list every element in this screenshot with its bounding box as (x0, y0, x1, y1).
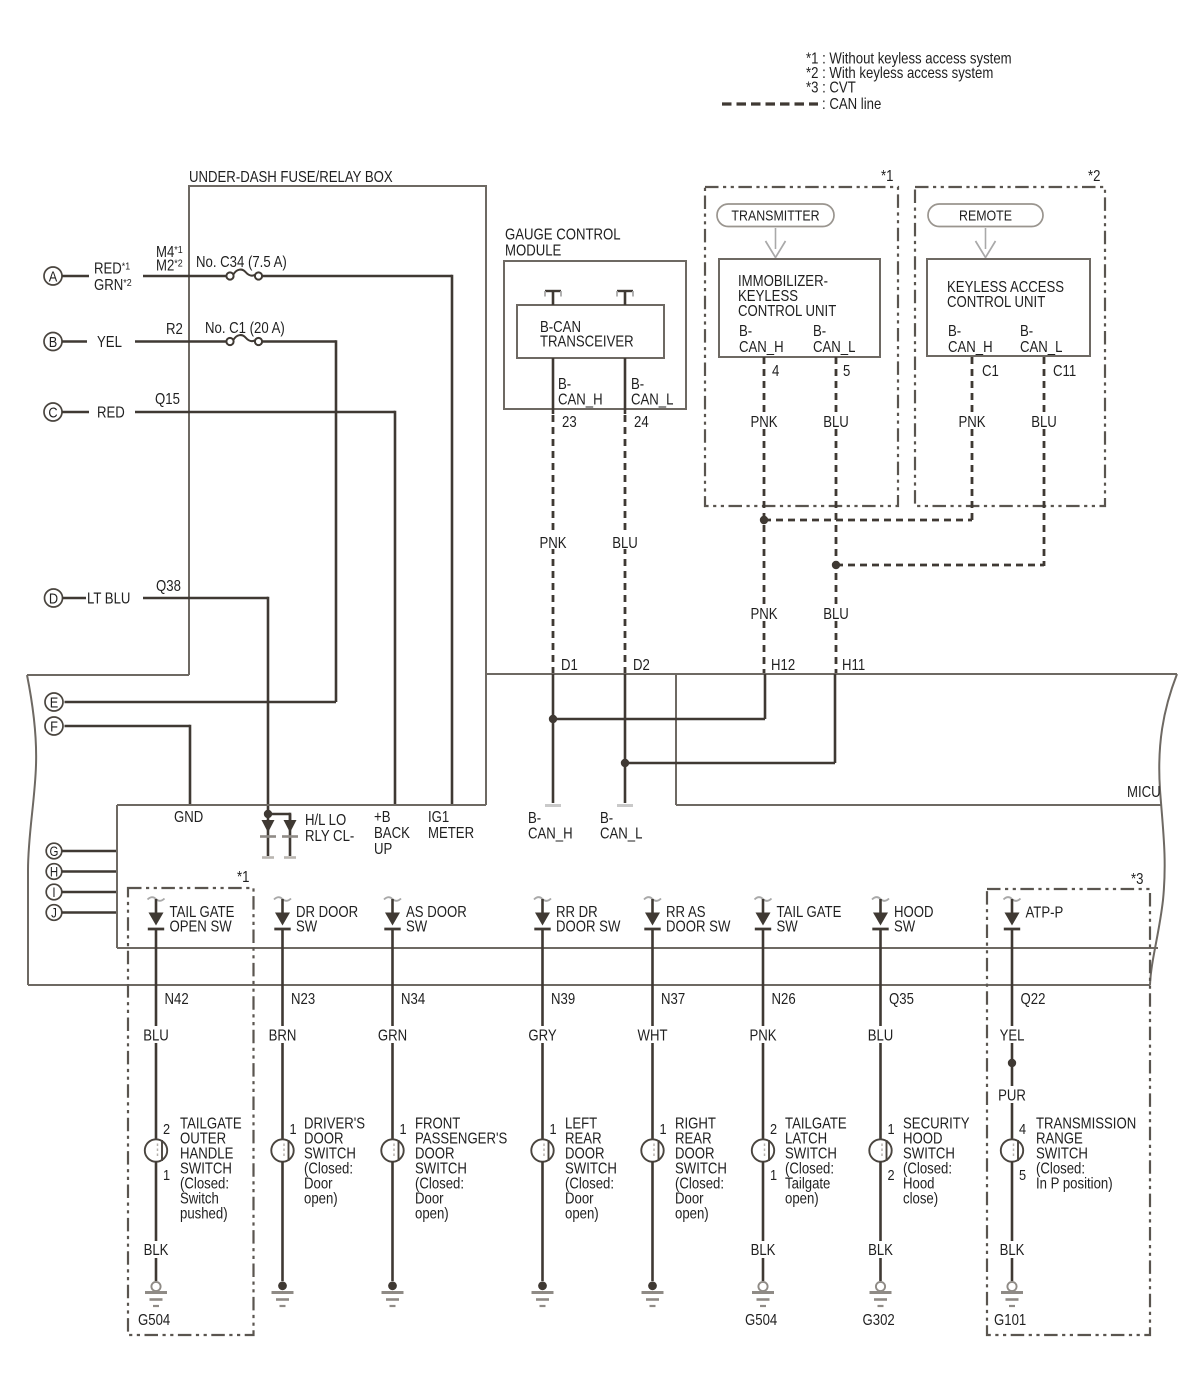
svg-text:SW: SW (406, 919, 428, 936)
wire A stub (62, 275, 89, 278)
svg-text:BLU: BLU (612, 535, 638, 552)
wire color label GRY (525, 1026, 561, 1045)
MICU pin H11 label (842, 657, 865, 674)
immobilizer-keyless control unit box (719, 259, 880, 357)
svg-text:DOOR SW: DOOR SW (556, 919, 621, 936)
wire B-CAN_L inside gauge module (624, 358, 627, 414)
switch symbol DR DOOR SW (274, 897, 291, 929)
wire below DRIVER'S DOOR SWITCH (281, 1162, 284, 1281)
wire below TAILGATE LATCH SWITCH (762, 1162, 765, 1281)
svg-text:REMOTE: REMOTE (959, 208, 1012, 224)
CAN wire immobilizer pin4 (PNK) dashed down to H12 (747, 357, 781, 673)
wire color label BLK at x=880.5 (864, 1241, 898, 1259)
svg-text:YEL: YEL (97, 334, 122, 351)
wire from switch Q22 down to lower switch (1011, 929, 1014, 1140)
svg-text:G302: G302 (863, 1312, 895, 1329)
svg-text:F: F (50, 717, 58, 734)
svg-text:1: 1 (290, 1120, 297, 1137)
svg-text:H/L LO: H/L LO (305, 812, 346, 829)
svg-text:GRN: GRN (378, 1028, 407, 1045)
wire below SECURITY HOOD SWITCH (879, 1162, 882, 1281)
switch symbol RR AS DOOR SW (644, 897, 661, 929)
connector terminal D (45, 589, 63, 607)
pin number 1 of FRONT PASSENGER'S DOOR SWITCH (400, 1120, 407, 1137)
svg-text:*1: *1 (237, 869, 249, 886)
switch name label TAIL GATE SW (777, 904, 842, 936)
ground chassis at x=652.5 (642, 1281, 664, 1306)
svg-text:G: G (50, 844, 59, 859)
switch name label TAIL GATE OPEN SW (170, 904, 235, 936)
wire B to fuse (135, 340, 227, 343)
remote arrow (976, 228, 996, 258)
svg-text:2: 2 (163, 1120, 170, 1137)
svg-text:BLK: BLK (144, 1242, 169, 1259)
svg-text:N39: N39 (551, 991, 575, 1008)
svg-text:RED: RED (97, 405, 125, 422)
wire color label GRN (375, 1026, 411, 1045)
svg-text:*1: *1 (881, 168, 893, 185)
svg-text:BLU: BLU (868, 1028, 894, 1045)
immobilizer-keyless control unit label (738, 273, 836, 320)
svg-text:G101: G101 (994, 1312, 1026, 1329)
svg-text:GND: GND (174, 809, 203, 826)
keyless access control unit label (947, 279, 1064, 311)
ground G101 at x=1012 (1001, 1282, 1023, 1306)
immobilizer pin number 4 (772, 363, 779, 380)
wire below LEFT REAR DOOR SWITCH (541, 1162, 544, 1281)
wire from switch N26 down to lower switch (762, 929, 765, 1140)
wire from switch N39 down to lower switch (541, 929, 544, 1140)
pin number 1 of TAILGATE OUTER HANDLE SWITCH (163, 1166, 170, 1183)
wire D stub (63, 597, 87, 600)
REMOTE pill (928, 204, 1043, 227)
switch symbol TAIL GATE SW (755, 897, 772, 929)
svg-text:BLU: BLU (823, 606, 849, 623)
svg-text:CAN_H: CAN_H (948, 339, 993, 356)
MICU torn left edge (27, 675, 36, 985)
MICU pin name GND (174, 809, 203, 826)
ground label G504 (745, 1312, 777, 1329)
svg-text:B-: B- (739, 323, 752, 340)
svg-text:+B: +B (374, 809, 390, 826)
wire from switch Q35 down to lower switch (879, 929, 882, 1140)
ground label G101 (994, 1312, 1026, 1329)
wire color label BLK at x=156 (139, 1241, 173, 1259)
svg-text:A: A (49, 267, 58, 284)
MICU inner bottom edge (117, 947, 1158, 949)
wire H12 branch down (764, 674, 767, 719)
junction dot on wire D at diode pair (264, 810, 272, 818)
connector terminal F (45, 717, 63, 735)
svg-text:H: H (50, 865, 58, 880)
svg-text:BRN: BRN (269, 1028, 297, 1045)
gauge control module box U-GCM (504, 261, 686, 409)
connector terminal B (44, 333, 62, 351)
switch DRIVER'S DOOR SWITCH (271, 1139, 293, 1161)
svg-text:4: 4 (1019, 1120, 1026, 1137)
svg-text:5: 5 (1019, 1166, 1026, 1183)
MICU pin D1 label (561, 657, 578, 674)
dash-dot option box *1 (without keyless) (705, 187, 898, 506)
svg-text:BACK: BACK (374, 825, 410, 842)
svg-text:Q35: Q35 (889, 991, 914, 1008)
MICU bottom edge (28, 984, 1150, 986)
wire I horizontal (62, 891, 117, 894)
wire C stub (62, 411, 89, 414)
wire H11 branch down (834, 674, 837, 763)
svg-text:D2: D2 (633, 657, 650, 674)
svg-text:1: 1 (400, 1120, 407, 1137)
svg-text:close): close) (903, 1191, 938, 1208)
switch name label RR DR DOOR SW (556, 904, 621, 936)
svg-text:GAUGE CONTROL: GAUGE CONTROL (505, 227, 621, 244)
keyless pin label B-CAN_L (1020, 323, 1062, 356)
B-CAN transceiver label (540, 319, 634, 351)
MICU pin name IG1 METER (428, 809, 474, 842)
fuse No. C34 (7.5 A) value label (196, 254, 287, 271)
connector terminal A (44, 267, 62, 285)
svg-text:open): open) (415, 1206, 449, 1223)
switch TAILGATE OUTER HANDLE SWITCH (145, 1139, 167, 1161)
svg-text:N42: N42 (165, 991, 189, 1008)
MICU connector label N34 (401, 991, 425, 1008)
svg-text:: CAN line: : CAN line (822, 96, 881, 113)
switch symbol RR DR DOOR SW (534, 897, 551, 929)
wire from switch N37 down to lower switch (651, 929, 654, 1140)
immobilizer pin number 5 (843, 363, 850, 380)
CAN wire keyless pin C11 (BLU) dashed (1027, 357, 1061, 566)
MICU pin name B-CAN_H (528, 810, 573, 843)
diode pair link wire (268, 813, 290, 820)
legend note *2 (806, 65, 993, 82)
svg-text:1: 1 (163, 1166, 170, 1183)
CAN bus link PNK horizontal dashed (764, 519, 972, 522)
legend note *3 (806, 80, 856, 97)
svg-text:PNK: PNK (750, 414, 777, 431)
svg-text:open): open) (675, 1206, 709, 1223)
svg-text:CONTROL UNIT: CONTROL UNIT (947, 294, 1045, 311)
svg-text:YEL: YEL (1000, 1028, 1025, 1045)
option box *3 label (1131, 871, 1143, 888)
CAN wire immobilizer pin5 (BLU) dashed down to H11 (819, 357, 853, 673)
svg-text:*3 : CVT: *3 : CVT (806, 80, 856, 97)
wire below TAILGATE OUTER HANDLE SWITCH (155, 1162, 158, 1281)
ground chassis at x=392.5 (382, 1281, 404, 1306)
switch symbol HOOD SW (872, 897, 889, 929)
MICU pin D2 label (633, 657, 650, 674)
fuse No. C34 symbol (226, 270, 262, 280)
gauge pin label B-CAN_H (558, 376, 603, 409)
svg-text:PNK: PNK (750, 606, 777, 623)
splice dot on ATP-P wire (1008, 1059, 1016, 1067)
wire B-CAN_H inside gauge module (552, 358, 555, 414)
name label RIGHT REAR DOOR SWITCH (675, 1116, 727, 1223)
wire F horizontal (65, 725, 191, 728)
wire color label BLU (138, 1026, 174, 1045)
name label TAILGATE LATCH SWITCH (785, 1116, 847, 1208)
wire B from fuse to corner (262, 340, 336, 343)
switch symbol AS DOOR SW (384, 897, 401, 929)
MICU connector label N26 (772, 991, 796, 1008)
wire F down to GND pin (189, 725, 192, 805)
MICU inner step vertical (675, 674, 677, 805)
svg-text:PNK: PNK (958, 414, 985, 431)
connector label R2 (166, 321, 183, 338)
option box *2 label (1088, 168, 1100, 185)
svg-text:RLY CL-: RLY CL- (305, 828, 354, 845)
wire D down to H/L LO RLY CL- diodes (267, 597, 270, 815)
svg-text:23: 23 (562, 414, 577, 431)
dash-dot option box *2 (with keyless) (915, 187, 1105, 506)
diode H/L LO RLY CL- at x=290 (282, 814, 298, 858)
wire B-CAN_H inside MICU from D1 (552, 674, 555, 803)
immobilizer pin label B-CAN_L (813, 323, 855, 356)
svg-text:Q22: Q22 (1021, 991, 1046, 1008)
wire J horizontal (62, 911, 117, 914)
pin number 1 of RIGHT REAR DOOR SWITCH (660, 1120, 667, 1137)
CAN bus link BLU horizontal dashed (836, 564, 1044, 567)
keyless access control unit box (927, 259, 1090, 356)
ground G302 at x=880.5 (870, 1282, 892, 1306)
svg-text:C: C (48, 403, 57, 420)
svg-text:CAN_H: CAN_H (739, 339, 784, 356)
name label LEFT REAR DOOR SWITCH (565, 1116, 617, 1223)
diode H/L LO RLY CL- at x=268 (260, 814, 276, 858)
transceiver antenna pin at x=625 (617, 291, 633, 305)
name label FRONT PASSENGER'S DOOR SWITCH (415, 1116, 507, 1223)
connector terminal C (44, 403, 62, 421)
svg-text:C11: C11 (1053, 363, 1076, 380)
svg-text:N26: N26 (772, 991, 796, 1008)
wire color label PUR (994, 1086, 1030, 1105)
wire G horizontal (62, 850, 117, 853)
pin number 2 of SECURITY HOOD SWITCH (888, 1166, 895, 1183)
svg-text:BLK: BLK (751, 1242, 776, 1259)
wire color label PNK (745, 1026, 781, 1045)
svg-text:D: D (49, 589, 58, 606)
svg-text:*2: *2 (1088, 168, 1100, 185)
name label SECURITY HOOD SWITCH (903, 1116, 970, 1208)
svg-text:J: J (51, 906, 57, 921)
pin number 1 of LEFT REAR DOOR SWITCH (550, 1120, 557, 1137)
gauge pin number 23 (562, 414, 577, 431)
connector label Q38 (156, 578, 181, 595)
svg-text:Q38: Q38 (156, 578, 181, 595)
switch FRONT PASSENGER'S DOOR SWITCH (381, 1139, 403, 1161)
svg-text:PNK: PNK (539, 535, 566, 552)
wire from switch N23 down to lower switch (281, 929, 284, 1140)
MICU connector label N37 (661, 991, 685, 1008)
svg-text:SW: SW (296, 919, 318, 936)
fuse No. C1 (20 A) value label (205, 320, 285, 337)
wire color label YEL (994, 1026, 1030, 1045)
under-dash fuse/relay box label (189, 169, 393, 186)
svg-text:Q15: Q15 (155, 391, 180, 408)
wire B stub (62, 340, 87, 343)
wire A to fuse (143, 275, 227, 278)
svg-text:C1: C1 (982, 363, 999, 380)
MICU connector label Q35 (889, 991, 914, 1008)
svg-text:PNK: PNK (749, 1028, 776, 1045)
svg-text:WHT: WHT (638, 1028, 668, 1045)
transceiver antenna pin at x=553 (545, 291, 561, 305)
svg-text:1: 1 (550, 1120, 557, 1137)
svg-text:GRY: GRY (528, 1028, 557, 1045)
gauge pin number 24 (634, 414, 649, 431)
switch name label AS DOOR SW (406, 904, 467, 936)
svg-text:MICU: MICU (1127, 784, 1161, 801)
svg-text:LT BLU: LT BLU (87, 591, 130, 608)
switch symbol TAIL GATE OPEN SW (148, 897, 165, 929)
ground label G302 (863, 1312, 895, 1329)
wire B down to E row (335, 340, 338, 702)
svg-text:open): open) (785, 1191, 819, 1208)
wire below RIGHT REAR DOOR SWITCH (651, 1162, 654, 1281)
svg-text:pushed): pushed) (180, 1206, 228, 1223)
wire color label BLK at x=763 (746, 1241, 780, 1259)
MICU torn right edge (1150, 674, 1177, 985)
switch TAILGATE LATCH SWITCH (752, 1139, 774, 1161)
keyless pin label B-CAN_H (948, 323, 993, 356)
svg-text:4: 4 (772, 363, 779, 380)
svg-text:N34: N34 (401, 991, 425, 1008)
pin number 1 of DRIVER'S DOOR SWITCH (290, 1120, 297, 1137)
svg-text:BLU: BLU (1031, 414, 1057, 431)
svg-text:UP: UP (374, 841, 392, 858)
svg-text:B-: B- (948, 323, 961, 340)
connector terminal I (46, 884, 62, 900)
switch TRANSMISSION RANGE SWITCH (1001, 1139, 1023, 1161)
wire color label BRN (265, 1026, 301, 1045)
svg-text:N37: N37 (661, 991, 685, 1008)
svg-text:BLK: BLK (868, 1242, 893, 1259)
svg-text:G504: G504 (138, 1312, 170, 1329)
svg-text:2: 2 (770, 1120, 777, 1137)
switch name label HOOD SW (894, 904, 933, 936)
svg-text:No. C1 (20 A): No. C1 (20 A) (205, 320, 285, 337)
svg-text:D1: D1 (561, 657, 578, 674)
junction dot PNK bus (760, 516, 768, 524)
MICU pin name +B BACK UP (374, 809, 410, 858)
connector terminal H (46, 864, 62, 880)
MICU pin H12 label (771, 657, 795, 674)
svg-text:MODULE: MODULE (505, 243, 561, 260)
wire from switch N34 down to lower switch (391, 929, 394, 1140)
svg-text:B-: B- (813, 323, 826, 340)
MICU top edge right segment (486, 673, 1177, 675)
svg-text:1: 1 (770, 1166, 777, 1183)
svg-text:METER: METER (428, 825, 474, 842)
switch RIGHT REAR DOOR SWITCH (641, 1139, 663, 1161)
wire B-CAN_L inside MICU from D2 (624, 674, 627, 803)
svg-text:DOOR SW: DOOR SW (666, 919, 731, 936)
svg-text:open): open) (565, 1206, 599, 1223)
wire H horizontal (62, 870, 117, 873)
pin number 2 of TAILGATE LATCH SWITCH (770, 1120, 777, 1137)
gauge control module label (505, 227, 621, 260)
CAN wire keyless pin C1 (PNK) dashed (955, 357, 989, 521)
svg-text:CAN_L: CAN_L (1020, 339, 1062, 356)
svg-text:BLU: BLU (823, 414, 849, 431)
wire C down to +B BACK UP pin (394, 411, 397, 805)
svg-text:H11: H11 (842, 657, 865, 674)
svg-text:SW: SW (894, 919, 916, 936)
MICU inner top edge left part (117, 804, 486, 806)
MICU connector label N23 (291, 991, 315, 1008)
wire below TRANSMISSION RANGE SWITCH (1011, 1162, 1014, 1281)
legend note *1 (806, 51, 1012, 68)
wire color label BLK at x=1012 (995, 1241, 1029, 1259)
MICU top edge left segment (27, 674, 189, 676)
svg-text:1: 1 (888, 1120, 895, 1137)
svg-text:24: 24 (634, 414, 649, 431)
svg-text:I: I (52, 885, 55, 900)
connector terminal E (45, 693, 63, 711)
MICU connector label Q22 (1021, 991, 1046, 1008)
ground label G504 (138, 1312, 170, 1329)
name label TAILGATE OUTER HANDLE SWITCH (180, 1116, 242, 1223)
svg-text:UNDER-DASH FUSE/RELAY BOX: UNDER-DASH FUSE/RELAY BOX (189, 169, 393, 186)
switch name label RR AS DOOR SW (666, 904, 731, 936)
wire A down to IG1 METER pin (451, 275, 454, 805)
wire color label BLU (863, 1026, 899, 1045)
ground G504 at x=156 (145, 1282, 167, 1306)
svg-text:IG1: IG1 (428, 809, 449, 826)
svg-text:*3: *3 (1131, 871, 1143, 888)
svg-text:R2: R2 (166, 321, 183, 338)
svg-text:TRANSMITTER: TRANSMITTER (731, 208, 819, 224)
svg-text:G504: G504 (745, 1312, 777, 1329)
wire color label RED*1 / GRN*2 (94, 261, 132, 295)
svg-text:CAN_L: CAN_L (600, 826, 642, 843)
svg-text:BLK: BLK (1000, 1242, 1025, 1259)
svg-text:5: 5 (843, 363, 850, 380)
dash-dot option box *1 (tailgate outer handle switch) (128, 888, 254, 1335)
wire from switch N42 down to lower switch (155, 929, 158, 1140)
svg-text:B: B (49, 333, 58, 350)
wire D horizontal (143, 597, 268, 600)
name label DRIVER'S DOOR SWITCH (304, 1116, 365, 1208)
legend CAN line sample (722, 96, 881, 113)
svg-text:1: 1 (660, 1120, 667, 1137)
switch name label ATP-P (1026, 905, 1064, 922)
svg-text:2: 2 (888, 1166, 895, 1183)
connector label M4*1 / M2*2 (156, 244, 183, 275)
TRANSMITTER pill (717, 204, 834, 227)
wire color label WHT (635, 1026, 671, 1045)
svg-text:H12: H12 (771, 657, 795, 674)
ground G504 at x=763 (752, 1282, 774, 1306)
junction dot BLU bus (832, 561, 840, 569)
wire C horizontal (135, 411, 395, 414)
gauge pin label B-CAN_L (631, 376, 673, 409)
B-CAN transceiver box (517, 305, 664, 358)
pin number 1 of SECURITY HOOD SWITCH (888, 1120, 895, 1137)
option box *1 bottom label (237, 869, 249, 886)
option box *1 label (881, 168, 893, 185)
wire color label YEL (97, 334, 122, 351)
B-CAN_H pin bar (545, 804, 561, 807)
svg-text:CAN_L: CAN_L (813, 339, 855, 356)
wire H11 branch horizontal to B-CAN_L (625, 762, 835, 765)
svg-text:open): open) (304, 1191, 338, 1208)
pin number 4 of TRANSMISSION RANGE SWITCH (1019, 1120, 1026, 1137)
svg-text:In P position): In P position) (1036, 1176, 1113, 1193)
under-dash fuse/relay box outline (189, 186, 486, 805)
svg-text:E: E (50, 693, 59, 710)
svg-text:N23: N23 (291, 991, 315, 1008)
ground chassis at x=282.5 (272, 1281, 294, 1306)
